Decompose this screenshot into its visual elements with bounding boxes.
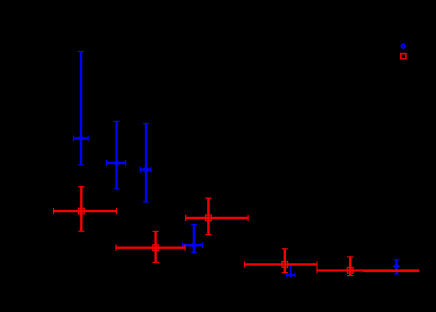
red point R4 error bars — [245, 249, 318, 273]
red point R2 error bars — [116, 231, 185, 262]
blue point B5 error bars (small) — [287, 265, 295, 278]
red point R5 marker — [347, 267, 353, 273]
blue point B4 error bars — [183, 225, 203, 253]
red point R2 marker — [153, 245, 159, 251]
blue point B6 marker — [393, 263, 400, 270]
blue point B1 marker — [78, 135, 85, 142]
legend red open square — [401, 54, 406, 59]
blue point B3 marker — [143, 166, 150, 173]
red point R3 marker — [206, 215, 212, 221]
blue point B4 marker — [190, 242, 197, 249]
blue point B5 marker — [288, 273, 293, 278]
blue point B2 error bars — [106, 121, 125, 188]
blue point B3 error bars — [140, 124, 151, 202]
red point R5 error bars — [317, 257, 419, 276]
blue point B6 error bars — [394, 260, 399, 274]
blue point B2 marker — [113, 159, 120, 166]
blue point B1 error bars — [74, 52, 89, 165]
red point R1 error bars — [54, 187, 117, 232]
legend blue open diamond — [401, 44, 405, 48]
red point R6 error bar segment (point clipped off right edge) — [363, 271, 420, 273]
red series (open square markers with xy error bars) — [54, 187, 420, 276]
red point R4 marker — [282, 262, 288, 268]
red point R3 error bars — [186, 198, 248, 235]
blue series (diamond markers with xy error bars) — [74, 52, 401, 278]
red point R1 marker — [78, 208, 84, 214]
